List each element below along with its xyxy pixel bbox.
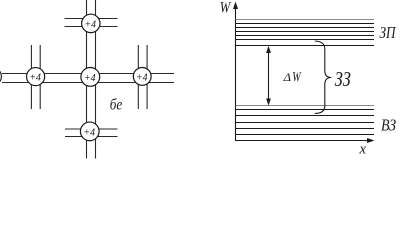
svg-text:ЗП: ЗП	[380, 23, 397, 42]
svg-text:+4: +4	[85, 18, 97, 30]
svg-text:+4: +4	[29, 72, 41, 84]
svg-text:бе: бе	[110, 97, 123, 114]
svg-text:+4: +4	[136, 71, 148, 83]
svg-text:W: W	[220, 0, 232, 17]
svg-text:Δ: Δ	[282, 70, 291, 84]
svg-text:ВЗ: ВЗ	[381, 116, 396, 135]
svg-text:+4: +4	[84, 126, 96, 138]
svg-text:W: W	[292, 70, 302, 86]
svg-text:x: x	[359, 142, 367, 158]
svg-text:ЗЗ: ЗЗ	[335, 67, 351, 91]
svg-text:+4: +4	[84, 72, 96, 84]
